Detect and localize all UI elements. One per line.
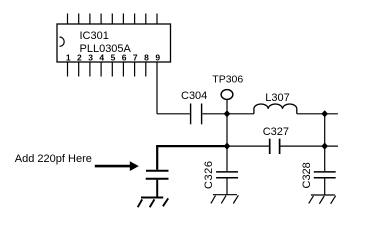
svg-text:C328: C328 [301, 162, 313, 188]
svg-text:C327: C327 [263, 126, 289, 138]
svg-text:IC301: IC301 [80, 30, 109, 42]
svg-text:8: 8 [144, 53, 149, 63]
svg-text:L307: L307 [265, 92, 289, 104]
svg-text:9: 9 [155, 53, 160, 63]
svg-text:C304: C304 [181, 90, 207, 102]
svg-text:PLL0305A: PLL0305A [80, 43, 132, 55]
svg-text:1: 1 [66, 53, 71, 63]
svg-text:C326: C326 [203, 161, 215, 190]
svg-text:TP306: TP306 [212, 74, 243, 86]
svg-text:7: 7 [133, 53, 138, 63]
svg-text:Add 220pf Here: Add 220pf Here [15, 153, 92, 165]
